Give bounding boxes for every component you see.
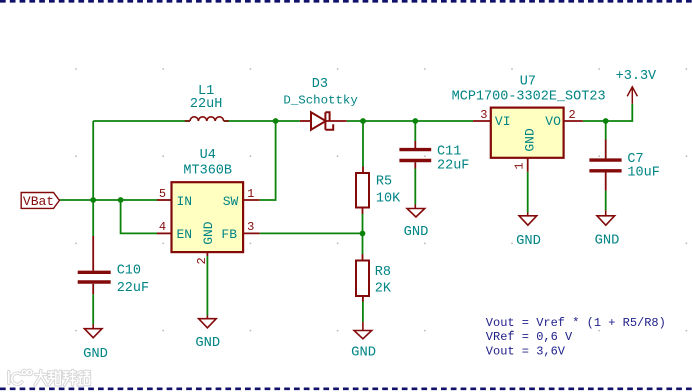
wire C11 top	[414, 121, 416, 141]
junction dot	[603, 118, 609, 124]
junction dot	[360, 118, 366, 124]
svg-text:D_Schottky: D_Schottky	[283, 93, 358, 107]
junction dot	[412, 118, 418, 124]
svg-text:1: 1	[247, 187, 254, 201]
svg-text:MCP1700-3302E_SOT23: MCP1700-3302E_SOT23	[452, 90, 606, 105]
wire coil to diode	[224, 120, 300, 122]
svg-text:D3: D3	[312, 77, 328, 92]
inductor L1	[185, 117, 229, 121]
wire R8 top	[362, 233, 364, 254]
svg-text:Vout = 3,6V: Vout = 3,6V	[486, 344, 566, 358]
svg-text:5: 5	[159, 187, 166, 201]
diode D3	[300, 112, 347, 129]
svg-text:FB: FB	[221, 227, 237, 242]
svg-text:VRef = 0,6 V: VRef = 0,6 V	[486, 330, 573, 344]
wire R5 top	[362, 121, 364, 167]
wire R5 bottom	[362, 214, 364, 233]
resistor R5	[356, 167, 369, 215]
wire VBat to IN	[59, 199, 157, 201]
svg-text:VBat: VBat	[23, 194, 54, 209]
svg-text:GND: GND	[523, 128, 538, 152]
svg-text:2: 2	[568, 108, 575, 122]
wire riser left	[92, 121, 94, 200]
ground U7	[519, 213, 537, 226]
capacitor C7	[589, 140, 621, 191]
svg-text:GND: GND	[195, 336, 220, 351]
wire R8 bottom	[362, 302, 364, 322]
svg-text:Vout = Vref * (1 + R5/R8): Vout = Vref * (1 + R5/R8)	[486, 316, 666, 330]
svg-text:10K: 10K	[376, 191, 401, 206]
wire U7 gnd	[527, 172, 529, 213]
resistor R8	[356, 254, 369, 302]
wire SW riser	[260, 121, 276, 200]
svg-text:22uF: 22uF	[117, 281, 149, 296]
svg-text:U7: U7	[520, 75, 536, 90]
capacitor C11	[399, 141, 431, 169]
wire diode to U7	[347, 120, 473, 122]
svg-text:+3.3V: +3.3V	[616, 69, 657, 84]
svg-text:R5: R5	[376, 175, 392, 190]
svg-text:GND: GND	[516, 234, 541, 249]
wire C7 bottom	[605, 191, 607, 211]
wire U4 gnd	[206, 256, 208, 316]
svg-text:GND: GND	[595, 234, 620, 249]
svg-text:MT360B: MT360B	[183, 164, 232, 179]
capacitor C10	[78, 236, 111, 325]
svg-text:IN: IN	[177, 194, 193, 209]
svg-text:GND: GND	[404, 225, 429, 240]
global label VBat	[21, 193, 59, 209]
svg-text:22uH: 22uH	[190, 97, 222, 112]
svg-text:3: 3	[247, 220, 254, 234]
svg-text:GND: GND	[351, 346, 376, 361]
svg-text:3: 3	[480, 108, 487, 122]
page border dashes (decorative)	[0, 0, 692, 3]
junction dot	[90, 197, 96, 203]
svg-text:EN: EN	[177, 227, 193, 242]
wire VO to +3.3V	[583, 104, 633, 121]
wire FB net	[260, 232, 363, 234]
svg-text:2K: 2K	[375, 281, 392, 296]
wire top rail left	[93, 120, 190, 122]
svg-text:SW: SW	[223, 194, 239, 209]
svg-text:10uF: 10uF	[627, 166, 659, 181]
svg-text:GND: GND	[83, 347, 108, 362]
ground R8	[354, 322, 372, 339]
junction dot	[360, 231, 366, 237]
svg-text:C11: C11	[437, 144, 461, 159]
ground C10	[84, 325, 102, 338]
svg-text:4: 4	[159, 220, 166, 234]
ground C7	[597, 210, 615, 225]
svg-text:2: 2	[195, 257, 209, 264]
wire C11 bottom	[414, 169, 416, 205]
junction dot	[118, 197, 124, 203]
svg-text:GND: GND	[201, 221, 216, 245]
IC U7 MCP1700	[473, 108, 583, 172]
ground C11	[407, 205, 425, 218]
wire EN branch	[121, 200, 157, 233]
IC U4 MT360B	[157, 182, 260, 256]
svg-text:U4: U4	[200, 148, 216, 163]
svg-text:VI: VI	[495, 114, 511, 129]
svg-text:C10: C10	[117, 264, 141, 279]
svg-text:VO: VO	[545, 114, 561, 129]
wire C7 top	[605, 121, 607, 140]
svg-text:1: 1	[513, 162, 527, 169]
svg-text:R8: R8	[375, 265, 391, 280]
junction dot	[273, 118, 279, 124]
ground U4	[199, 316, 217, 328]
wire to C10	[92, 200, 94, 236]
power flag +3.3V	[627, 87, 637, 104]
svg-text:22uF: 22uF	[437, 158, 469, 173]
